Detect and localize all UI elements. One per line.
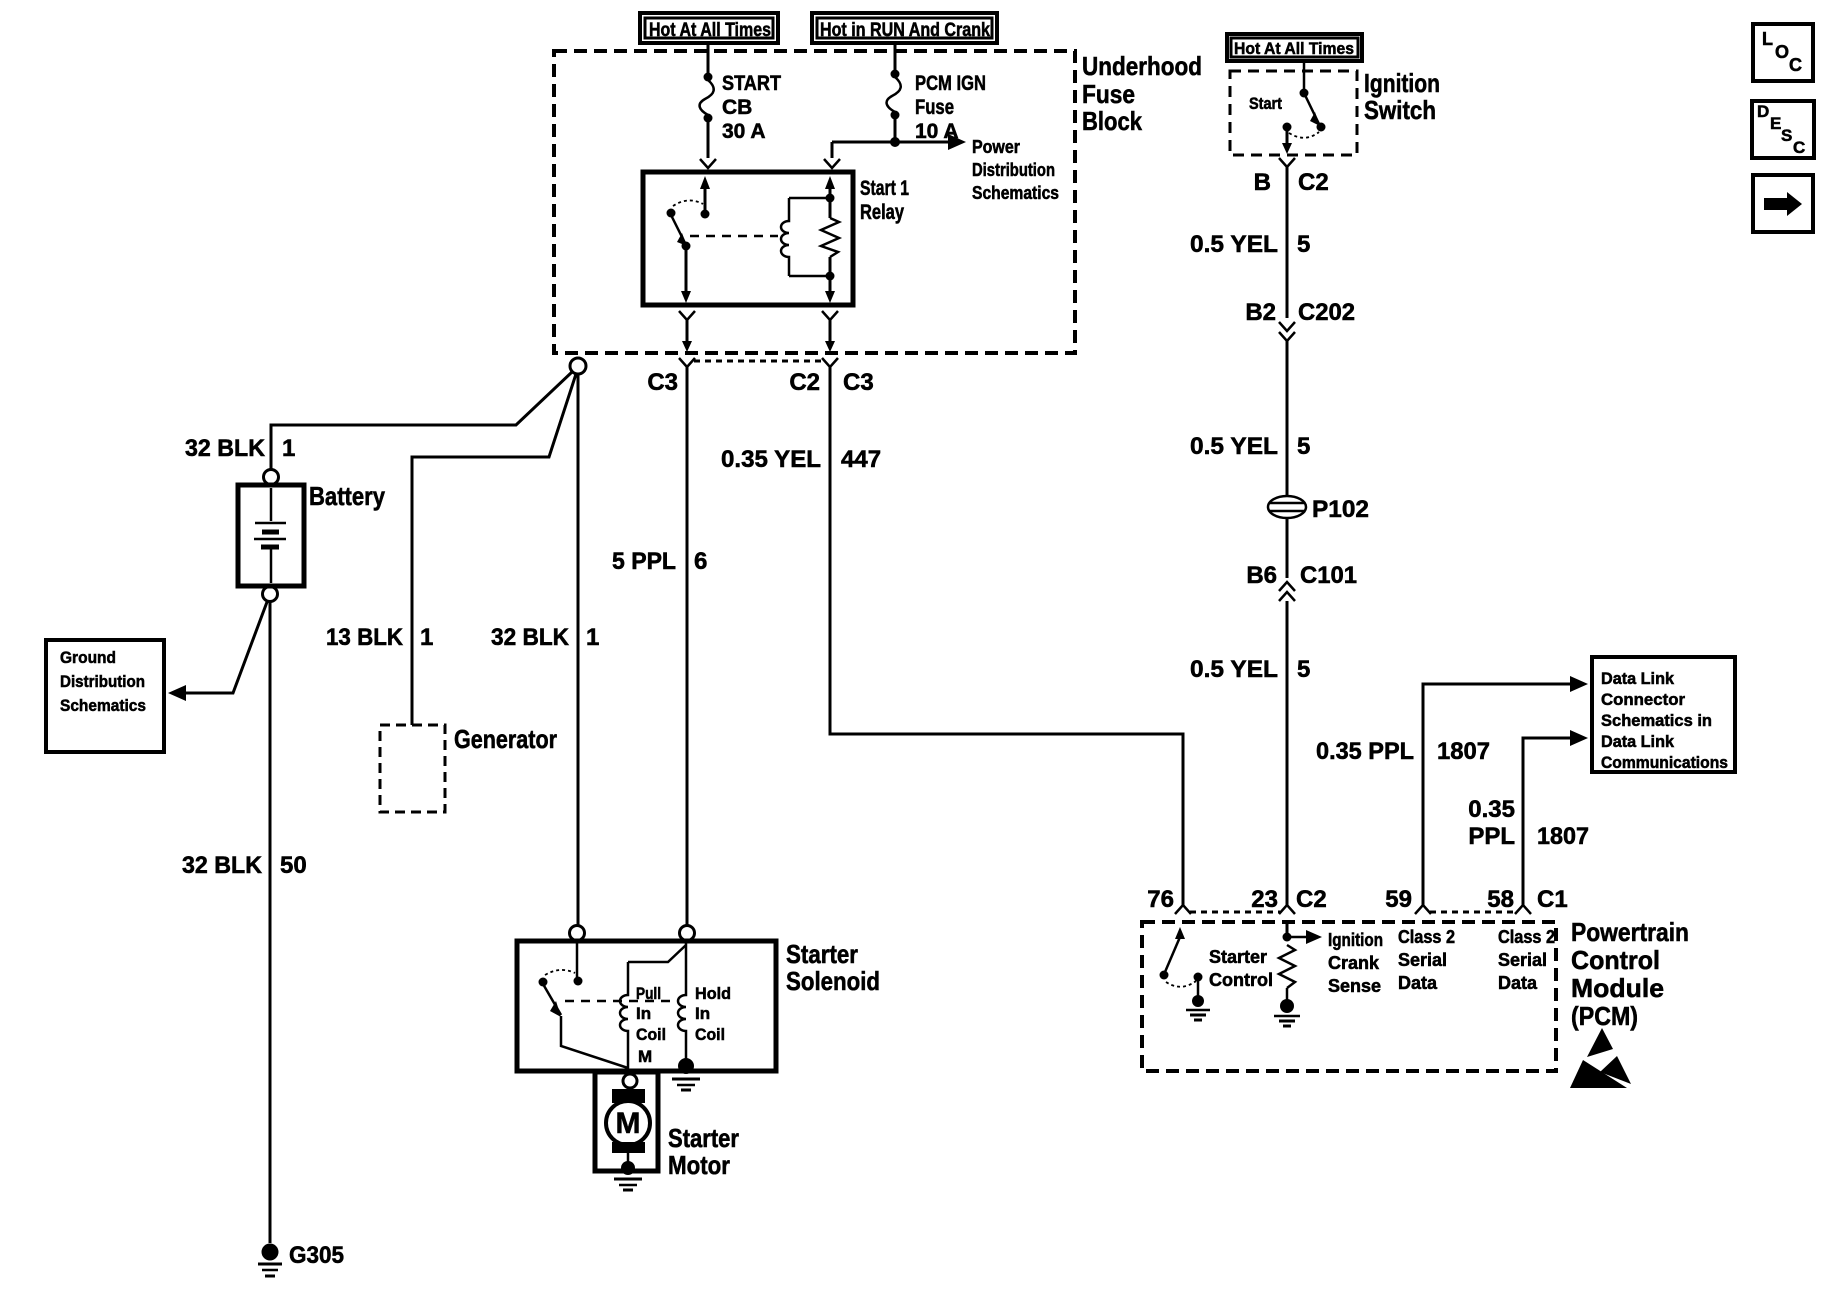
svg-text:1: 1 [420,624,433,651]
svg-text:5: 5 [1297,433,1310,460]
svg-text:Distribution: Distribution [60,672,145,691]
svg-text:0.35 YEL: 0.35 YEL [721,446,821,473]
svg-text:Powertrain: Powertrain [1571,917,1689,947]
svg-text:23: 23 [1251,886,1278,913]
svg-text:C2: C2 [789,369,820,396]
svg-text:G305: G305 [289,1242,344,1269]
svg-text:C1: C1 [1537,886,1568,913]
svg-text:In: In [636,1004,651,1023]
svg-text:Distribution: Distribution [972,160,1055,180]
svg-text:S: S [1781,126,1792,145]
svg-text:6: 6 [694,548,707,575]
svg-text:Schematics: Schematics [60,696,146,715]
svg-text:(PCM): (PCM) [1571,1001,1638,1031]
svg-text:C202: C202 [1298,299,1355,326]
svg-text:Fuse: Fuse [1082,79,1135,109]
svg-text:B: B [1254,169,1271,196]
svg-text:D: D [1757,102,1769,121]
svg-text:In: In [695,1004,710,1023]
svg-text:10 A: 10 A [915,120,959,143]
svg-text:C2: C2 [1296,886,1327,913]
svg-text:Data Link: Data Link [1601,732,1675,751]
svg-text:START: START [722,72,781,95]
svg-text:Communications: Communications [1601,753,1728,772]
svg-text:32 BLK: 32 BLK [185,435,266,462]
svg-text:Block: Block [1082,106,1142,136]
svg-text:Control: Control [1571,945,1660,975]
svg-text:0.5 YEL: 0.5 YEL [1190,656,1278,683]
svg-text:Fuse: Fuse [915,96,954,119]
svg-text:32 BLK: 32 BLK [182,852,263,879]
svg-text:Ignition: Ignition [1328,930,1383,950]
svg-text:Switch: Switch [1364,95,1436,125]
svg-text:O: O [1775,42,1789,62]
svg-text:30 A: 30 A [722,120,766,143]
svg-text:Coil: Coil [636,1025,666,1044]
svg-text:Sense: Sense [1328,976,1381,996]
svg-text:447: 447 [841,446,881,473]
svg-text:Connector: Connector [1601,690,1685,709]
svg-text:0.35: 0.35 [1468,796,1515,823]
svg-text:13 BLK: 13 BLK [326,624,404,651]
svg-text:Coil: Coil [695,1025,725,1044]
svg-text:PCM IGN: PCM IGN [915,72,986,95]
svg-text:M: M [616,1107,641,1140]
svg-text:Ground: Ground [60,648,116,667]
svg-text:Motor: Motor [668,1150,730,1180]
svg-text:P102: P102 [1312,496,1369,523]
svg-text:C2: C2 [1298,169,1329,196]
svg-text:C3: C3 [843,369,874,396]
svg-text:C: C [1789,55,1802,75]
svg-text:1: 1 [586,624,599,651]
svg-text:Start: Start [1249,94,1282,113]
svg-text:E: E [1770,114,1781,133]
svg-text:Starter: Starter [1209,947,1267,967]
svg-text:Data: Data [1398,973,1438,993]
svg-text:Hot At All Times: Hot At All Times [649,20,771,41]
svg-text:1807: 1807 [1437,738,1490,765]
svg-text:Serial: Serial [1498,950,1547,970]
svg-text:5: 5 [1297,231,1310,258]
svg-text:Schematics in: Schematics in [1601,711,1712,730]
svg-text:Power: Power [972,137,1020,157]
svg-text:C3: C3 [647,369,678,396]
svg-text:Data: Data [1498,973,1538,993]
svg-text:59: 59 [1385,886,1412,913]
svg-text:Battery: Battery [309,481,385,511]
svg-text:Starter: Starter [786,939,858,969]
svg-text:0.5 YEL: 0.5 YEL [1190,433,1278,460]
svg-text:Underhood: Underhood [1082,51,1202,81]
svg-text:1: 1 [282,435,295,462]
svg-text:Hot in RUN And Crank: Hot in RUN And Crank [820,20,990,41]
svg-text:50: 50 [280,852,307,879]
svg-text:C: C [1793,138,1805,157]
svg-text:L: L [1762,29,1773,49]
svg-text:Hot At All Times: Hot At All Times [1234,39,1354,58]
svg-text:C101: C101 [1300,562,1357,589]
svg-text:Control: Control [1209,970,1273,990]
svg-text:Hold: Hold [695,984,731,1003]
svg-text:Start 1: Start 1 [860,177,909,200]
svg-text:5: 5 [1297,656,1310,683]
svg-text:Schematics: Schematics [972,183,1059,203]
svg-text:Starter: Starter [668,1123,739,1153]
svg-text:Class 2: Class 2 [1398,927,1455,947]
svg-text:1807: 1807 [1537,823,1589,850]
svg-text:Generator: Generator [454,724,557,754]
svg-text:Crank: Crank [1328,953,1380,973]
svg-text:PPL: PPL [1468,823,1515,850]
svg-text:58: 58 [1487,886,1514,913]
svg-text:Relay: Relay [860,201,904,224]
svg-text:M: M [638,1047,652,1066]
svg-text:0.5 YEL: 0.5 YEL [1190,231,1278,258]
svg-text:Module: Module [1571,973,1664,1003]
svg-text:76: 76 [1147,886,1174,913]
svg-text:5 PPL: 5 PPL [612,548,676,575]
svg-text:Class 2: Class 2 [1498,927,1555,947]
svg-text:Pull: Pull [636,984,661,1003]
svg-text:B2: B2 [1245,299,1276,326]
svg-text:CB: CB [722,96,752,119]
svg-text:B6: B6 [1246,562,1277,589]
svg-text:32 BLK: 32 BLK [491,624,570,651]
svg-text:Solenoid: Solenoid [786,966,880,996]
svg-text:Serial: Serial [1398,950,1447,970]
svg-text:Data Link: Data Link [1601,669,1675,688]
svg-text:Ignition: Ignition [1364,68,1440,98]
svg-text:0.35 PPL: 0.35 PPL [1316,738,1414,765]
